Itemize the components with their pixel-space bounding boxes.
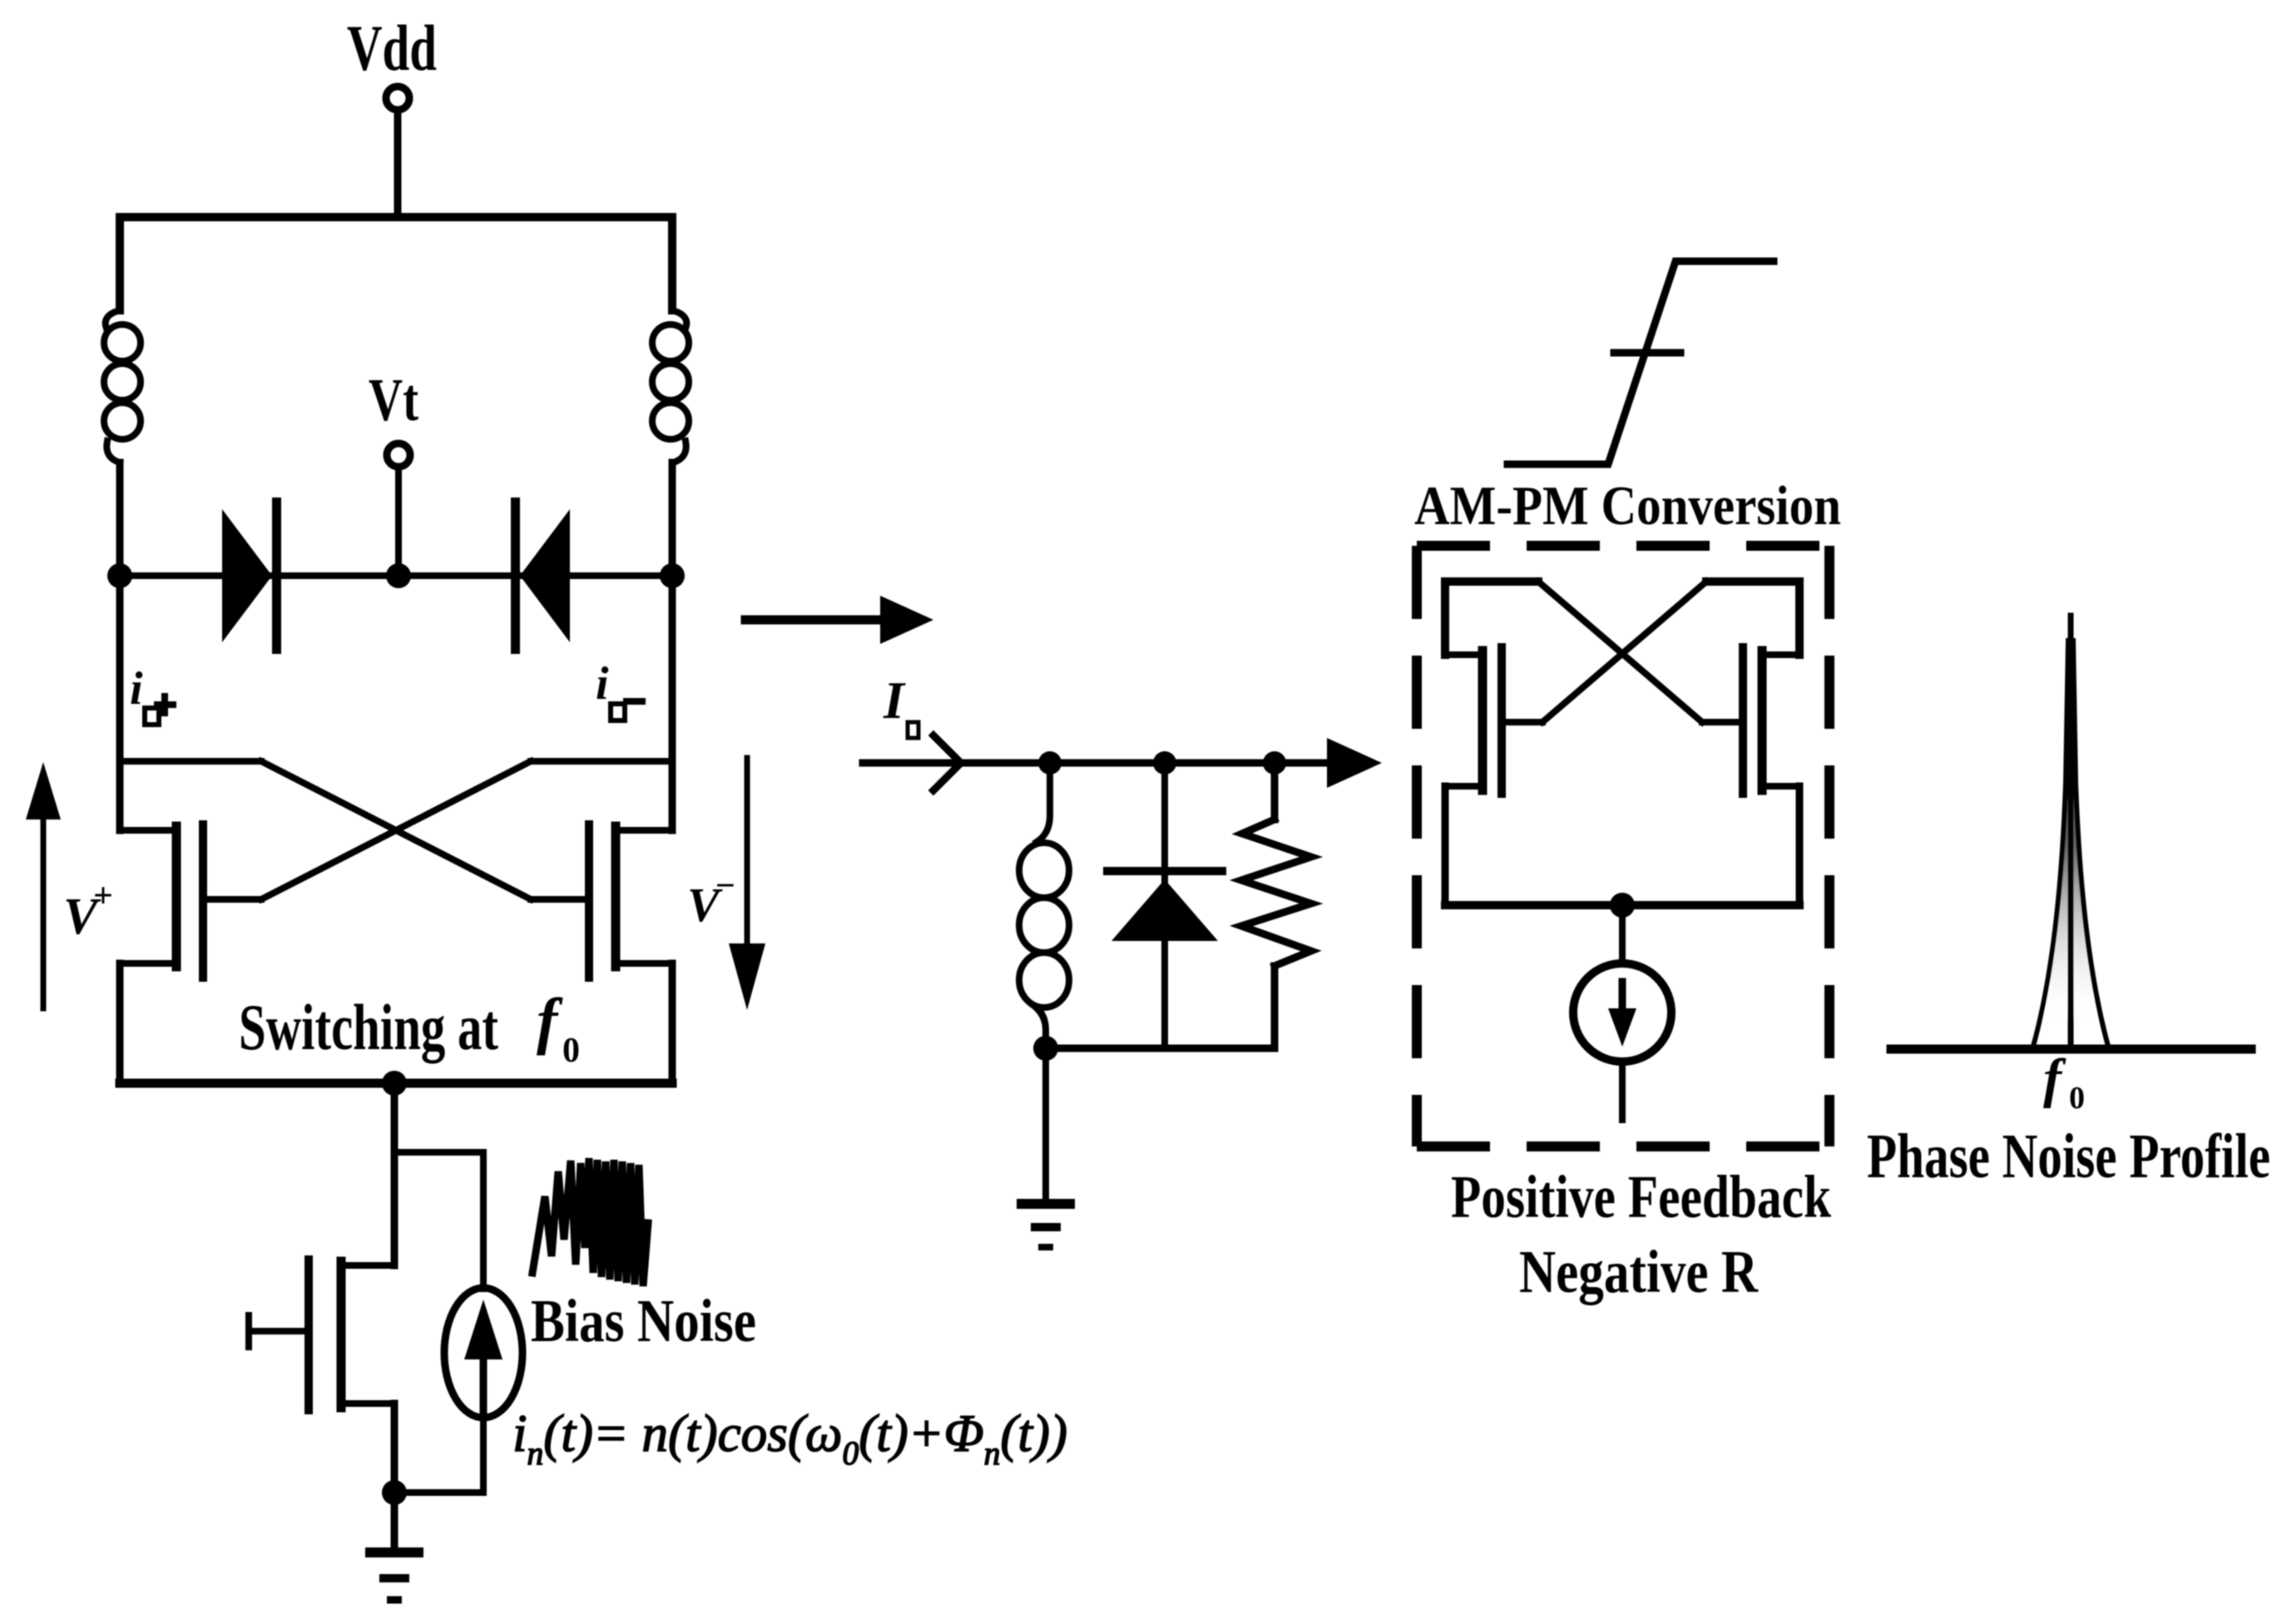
transistor M5 <box>1702 647 1799 794</box>
arrow V- down <box>729 758 765 1010</box>
node tank foot <box>1033 1036 1058 1061</box>
wire cell diagonal B <box>1542 582 1706 722</box>
label V+ <box>63 877 113 945</box>
wire top rail <box>120 217 672 310</box>
Vdd terminal <box>386 87 409 110</box>
transistor M3 <box>249 1260 394 1410</box>
transistor M4 <box>1445 647 1542 794</box>
wire tank bottom rail <box>1046 1045 1275 1052</box>
noise waveform <box>532 1158 648 1286</box>
svg-text:Vdd: Vdd <box>347 12 437 84</box>
wire bottom rail <box>120 1079 672 1088</box>
node cell tail <box>1610 893 1635 918</box>
inductor L1 <box>104 310 141 463</box>
wire Vt stem <box>395 467 402 576</box>
svg-text:Vt: Vt <box>369 366 418 433</box>
svg-text:Phase Noise Profile: Phase Noise Profile <box>1867 1121 2270 1191</box>
varactor D1 <box>222 498 281 654</box>
resistor R1 <box>1241 763 1311 1048</box>
wire cross-couple diagonal A <box>261 761 531 899</box>
node tank n1 <box>1038 751 1062 775</box>
node left tank <box>107 563 132 588</box>
node tank n2 <box>1153 751 1176 775</box>
wire cell bottom rail <box>1445 901 1799 909</box>
node tail <box>382 1071 407 1096</box>
svg-text:Negative R: Negative R <box>1519 1238 1759 1305</box>
svg-text:Switching at: Switching at <box>239 991 498 1063</box>
svg-text:AM-PM Conversion: AM-PM Conversion <box>1414 475 1841 537</box>
wire cell top right <box>1706 582 1799 655</box>
ground G1 <box>365 1493 423 1600</box>
wire bias branch top <box>394 1152 483 1289</box>
wire cross-couple diagonal B <box>261 761 531 899</box>
node tank n3 <box>1263 751 1286 775</box>
label f0 phase noise <box>2043 1048 2085 1116</box>
wire varactor row <box>120 572 672 579</box>
varactor D3 <box>1107 763 1222 1048</box>
svg-text:I: I <box>883 671 906 730</box>
wire cell tail stem <box>1619 905 1626 963</box>
wire cell right rail lower <box>1796 786 1804 905</box>
inductor L3 <box>1019 763 1069 1048</box>
phase noise spike <box>2032 616 2109 1049</box>
wire cell top left <box>1445 582 1538 655</box>
label i_a+ <box>130 663 173 725</box>
node Vt center <box>386 563 411 588</box>
label I_a <box>883 671 918 738</box>
node bias foot <box>382 1480 407 1505</box>
wire right rail to pair <box>669 576 676 830</box>
arrow chevron I_a <box>933 735 961 790</box>
svg-text:0: 0 <box>2069 1081 2085 1116</box>
label f0 switching <box>537 986 580 1070</box>
phase noise baseline <box>1891 1045 2251 1054</box>
equation i_n(t)=n(t)cos(w0(t)+phi_n(t)) <box>512 1404 1067 1472</box>
current source bias noise <box>444 1288 522 1418</box>
svg-text:i: i <box>596 658 609 710</box>
label V- <box>687 867 735 932</box>
Vt terminal <box>387 443 410 467</box>
wire tail stem <box>391 1083 398 1265</box>
arrow tank output <box>1327 738 1382 788</box>
svg-text:+: + <box>93 877 113 915</box>
wire bias source down <box>391 1404 398 1493</box>
svg-text:Positive Feedback: Positive Feedback <box>1451 1163 1831 1230</box>
wire right rail lower <box>669 963 676 1083</box>
wire left rail to pair <box>116 576 124 830</box>
wire right rail upper <box>669 463 676 576</box>
arrow section link <box>745 596 933 644</box>
AM-PM transfer curve icon <box>1507 261 1774 464</box>
wire Vdd stem <box>394 111 402 217</box>
svg-text:i: i <box>130 663 143 715</box>
wire tank input line <box>863 760 1325 767</box>
label i_a- <box>596 658 642 720</box>
transistor M1 <box>120 824 261 978</box>
dashed box positive feedback <box>1417 546 1829 1146</box>
wire bias branch bottom <box>394 1418 483 1493</box>
svg-text:Bias Noise: Bias Noise <box>531 1287 756 1354</box>
wire left rail lower <box>116 963 124 1083</box>
varactor D2 <box>511 498 570 654</box>
wire cross-couple left horizontal <box>120 758 261 765</box>
transistor M2 <box>531 824 672 978</box>
current source negative R <box>1573 963 1671 1062</box>
ground G2 <box>1017 1048 1075 1247</box>
wire cell diagonal A <box>1538 582 1702 722</box>
arrow V+ up <box>26 762 61 1008</box>
node right tank <box>660 563 685 588</box>
inductor L2 <box>652 310 689 463</box>
svg-text:0: 0 <box>562 1032 580 1070</box>
wire left rail upper <box>116 463 124 576</box>
wire below current source <box>1619 1062 1626 1120</box>
wire cross-couple right horizontal <box>531 758 672 765</box>
wire cell left rail lower <box>1442 786 1449 905</box>
svg-text:−: − <box>715 867 735 905</box>
